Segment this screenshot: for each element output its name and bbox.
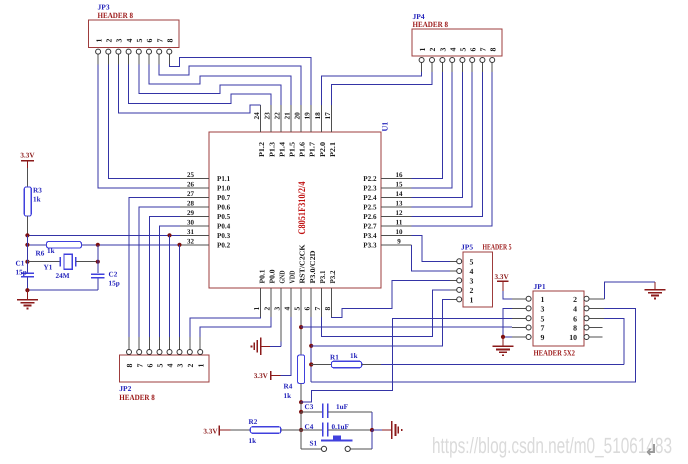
capacitor C3 (323, 404, 328, 418)
U1 right pin 14 (P2.4) (363, 190, 411, 202)
svg-text:10: 10 (396, 228, 404, 236)
svg-text:3: 3 (272, 307, 281, 311)
JP3 pin 8 (166, 39, 175, 65)
svg-text:P2.4: P2.4 (363, 193, 376, 202)
resistor R3 body (24, 187, 31, 216)
svg-text:4: 4 (125, 39, 134, 43)
svg-text:16: 16 (396, 171, 404, 179)
resistor R2 body (250, 427, 280, 433)
wire C4 node to ground (372, 429, 392, 431)
svg-text:7: 7 (479, 48, 488, 52)
IC U1 refdes label (381, 122, 390, 132)
svg-text:P1.2: P1.2 (257, 142, 266, 157)
JP1 pin 6 (573, 314, 604, 323)
svg-text:24M: 24M (56, 272, 70, 280)
svg-text:P3.3: P3.3 (363, 240, 376, 249)
watermark text (432, 433, 672, 458)
svg-text:8: 8 (125, 364, 134, 368)
svg-text:5: 5 (156, 364, 165, 368)
capacitor C1 (21, 273, 34, 290)
svg-text:P0.3: P0.3 (217, 231, 230, 240)
svg-text:P1.1: P1.1 (217, 174, 230, 183)
svg-text:P2.2: P2.2 (363, 174, 376, 183)
wire S1 right lead up to C4 node (350, 430, 372, 449)
wire JP1 pin 2 to ground (605, 282, 655, 299)
svg-text:R4: R4 (284, 383, 293, 391)
wire R2 to reset node (281, 429, 301, 431)
svg-text:18: 18 (313, 112, 322, 120)
JP2 pin 3 (176, 337, 185, 368)
svg-text:28: 28 (187, 200, 195, 208)
svg-text:P2.0: P2.0 (318, 142, 327, 157)
svg-text:R1: R1 (330, 354, 339, 362)
wire U1 P0.1 to JP2 pin 2 (190, 317, 261, 337)
JP3 pin 3 (115, 39, 124, 65)
svg-text:P1.0: P1.0 (217, 184, 230, 193)
wire JP3 pin 8 to U1 pin 19 (P1.7) (169, 57, 311, 105)
U1 left pin 28 (P0.6) (180, 200, 230, 212)
JP3 pin 7 (155, 39, 164, 65)
wire U1 P3.2 pin 8 to JP5 pin 3 (331, 280, 450, 317)
svg-text:5: 5 (135, 39, 144, 43)
JP4 pin 3 (439, 48, 448, 73)
R3 value label 1k (33, 196, 41, 204)
svg-text:2: 2 (105, 39, 114, 43)
svg-text:P0.4: P0.4 (217, 222, 230, 231)
svg-text:12: 12 (396, 209, 404, 217)
wire C3 right lead down to C4 node (328, 412, 372, 430)
svg-text:P0.2: P0.2 (217, 240, 230, 249)
wire reset node detour to JP1 pin 5 (301, 318, 512, 402)
ground right of C4 (392, 421, 403, 439)
svg-text:HEADER 5: HEADER 5 (483, 243, 512, 252)
svg-text:9: 9 (541, 333, 545, 342)
svg-text:17: 17 (323, 112, 332, 120)
U1 top pin 19 (P1.7) (303, 105, 317, 157)
svg-text:3: 3 (176, 364, 185, 368)
U1 bottom pin 2 (P0.0) (262, 269, 276, 317)
wire U1 GND pin 3 to ground (261, 317, 281, 346)
svg-text:P3.2: P3.2 (328, 270, 337, 283)
R3 refdes label (33, 187, 42, 195)
JP4 pin 6 (468, 48, 477, 73)
svg-text:21: 21 (283, 112, 292, 120)
svg-text:19: 19 (303, 112, 312, 120)
svg-text:P1.3: P1.3 (267, 142, 276, 157)
svg-text:HEADER 8: HEADER 8 (413, 20, 449, 29)
svg-text:23: 23 (262, 112, 271, 120)
svg-text:P1.7: P1.7 (308, 142, 317, 157)
junction ground node below JP5 (501, 335, 505, 339)
svg-text:1: 1 (418, 48, 427, 52)
U1 bottom pin 4 (VDD) (283, 271, 297, 318)
ground at top right (644, 282, 665, 299)
svg-text:31: 31 (187, 228, 195, 236)
wire U1 P0.7 to JP2 pin 8 (129, 198, 180, 338)
svg-text:P1.5: P1.5 (288, 142, 297, 157)
JP5 pin 3 (450, 276, 474, 285)
R1 refdes label (330, 354, 339, 362)
JP1 pin 9 (512, 333, 545, 342)
C2 value label 15p (109, 279, 120, 287)
svg-text:P2.3: P2.3 (363, 184, 376, 193)
wire U1 P0.0 to JP2 pin 1 (200, 317, 271, 337)
U1 left pin 29 (P0.5) (180, 209, 230, 221)
svg-text:15p: 15p (16, 268, 27, 276)
JP1 pin 10 (569, 333, 602, 342)
JP4 pin 2 (428, 48, 437, 73)
R4 refdes label (284, 383, 293, 391)
junction C2D to R1 (309, 362, 313, 366)
svg-text:R2: R2 (249, 418, 258, 426)
junction P0.2 to JP2 pin 3 (177, 243, 181, 337)
svg-text:5: 5 (293, 307, 302, 311)
JP2 refdes label (119, 384, 131, 393)
wire U1 P0.3 row to crystal node (27, 234, 180, 236)
wire JP4 pin 4 to U1 pin 15 (P2.3) (412, 72, 453, 188)
svg-text:1k: 1k (249, 437, 257, 445)
wire JP3 pin 3 to U1 pin 24 (P1.2) (118, 65, 260, 113)
C3 refdes label (305, 403, 314, 411)
JP1 pin 4 (573, 304, 604, 313)
IC U1 C8051F310/2/4 body (209, 132, 381, 288)
svg-text:P2.7: P2.7 (363, 222, 376, 231)
wire JP4 pin 5 to U1 pin 14 (P2.4) (412, 72, 463, 198)
wire RST to JP1 pin 7 (301, 326, 512, 328)
C1 refdes label (16, 260, 25, 268)
svg-text:4: 4 (166, 364, 175, 368)
junction RST to JP1 pin 7 (299, 325, 303, 329)
JP3 pin 4 (125, 39, 134, 65)
wire U1 P3.3 to JP5 pin 4 (412, 245, 450, 271)
svg-text:P0.1: P0.1 (257, 269, 266, 283)
R6 refdes label (36, 250, 45, 258)
wire U1 VDD pin 4 to 3.3V (281, 317, 292, 375)
capacitor C2 (91, 274, 105, 290)
svg-text:C1: C1 (16, 260, 25, 268)
svg-text:32: 32 (187, 237, 195, 245)
U1 bottom pin 7 (P3.1) (313, 270, 327, 317)
JP2 pin 7 (135, 337, 144, 368)
svg-text:2: 2 (428, 48, 437, 52)
svg-text:3: 3 (470, 276, 474, 285)
power 3.3V at VDD (254, 371, 281, 380)
svg-text:1: 1 (541, 295, 545, 304)
JP3 pin 5 (135, 39, 144, 65)
crystal Y1 (60, 254, 76, 269)
C4 refdes label (305, 423, 314, 431)
wire U1 P3.1 pin 7 to JP5 pin 2 (321, 290, 450, 336)
U1 top pin 22 (P1.4) (272, 105, 286, 157)
svg-text:1k: 1k (33, 196, 41, 204)
JP4 refdes label (413, 12, 425, 21)
svg-text:3.3V: 3.3V (203, 427, 218, 435)
C2 refdes label (109, 271, 118, 279)
svg-text:P2.6: P2.6 (363, 212, 376, 221)
connector JP3 body (88, 20, 179, 47)
C3 value label 1uF (336, 403, 349, 411)
svg-text:5: 5 (459, 48, 468, 52)
junction C2D to JP5 pin 1 (309, 344, 313, 348)
svg-text:P2.5: P2.5 (363, 203, 376, 212)
U1 top pin 17 (P2.1) (323, 105, 337, 157)
svg-text:6: 6 (146, 364, 155, 368)
U1 top pin 23 (P1.3) (262, 105, 276, 157)
svg-text:1: 1 (470, 295, 474, 304)
svg-text:R6: R6 (36, 250, 45, 258)
node crystal left rail (25, 233, 29, 272)
svg-text:VDD: VDD (288, 271, 297, 284)
R2 value label 1k (249, 437, 257, 445)
U1 top pin 24 (P1.2) (252, 105, 266, 157)
svg-text:P3.4: P3.4 (363, 231, 376, 240)
switch S1 (321, 436, 352, 452)
ground below JP5 (492, 337, 513, 356)
svg-text:P1.6: P1.6 (298, 142, 307, 157)
U1 right pin 11 (P2.7) (363, 218, 411, 230)
Y1 value label 24M (56, 272, 70, 280)
JP1 pin 5 (512, 314, 545, 323)
svg-text:1uF: 1uF (336, 403, 349, 411)
U1 right pin 13 (P2.5) (363, 200, 411, 212)
R1 value label 1k (350, 352, 358, 360)
ground below C1 (17, 290, 38, 309)
wire C4 left lead (301, 429, 322, 431)
svg-text:7: 7 (155, 39, 164, 43)
JP4 pin 4 (448, 48, 457, 73)
svg-text:1: 1 (252, 307, 261, 311)
JP1 refdes label (534, 282, 546, 291)
wire JP3 pin 7 to U1 pin 20 (P1.6) (159, 65, 301, 105)
wire C4 right lead (328, 429, 372, 431)
wire JP3 pin 1 to U1 P1.0 (98, 65, 180, 189)
svg-text:3.3V: 3.3V (495, 273, 510, 281)
svg-text:1: 1 (196, 364, 205, 368)
wire JP4 pin 2 to U1 pin 17 (P2.1) (331, 72, 432, 105)
svg-text:2: 2 (573, 295, 577, 304)
JP1 pin 8 (573, 324, 602, 333)
svg-text:22: 22 (272, 112, 281, 120)
Y1 refdes label (44, 264, 53, 272)
U1 bottom pin 8 (P3.2) (323, 270, 337, 317)
U1 left pin 32 (P0.2) (180, 237, 230, 249)
JP2 pin 6 (146, 337, 155, 368)
U1 top pin 21 (P1.5) (283, 105, 297, 157)
U1 left pin 27 (P0.7) (180, 190, 230, 202)
resistor R4 body (298, 355, 305, 384)
U1 bottom pin 1 (P0.1) (252, 269, 266, 317)
svg-text:14: 14 (396, 190, 404, 198)
svg-text:https://blog.csdn.net/m0_51061: https://blog.csdn.net/m0_51061483 (432, 433, 672, 458)
svg-text:3: 3 (439, 48, 448, 52)
U1 right pin 15 (P2.3) (363, 181, 411, 193)
JP1 value label HEADER 5X2 (534, 349, 576, 358)
wire 3.3V to R3 (26, 168, 28, 187)
wire 3.3V to JP1 pin 1 (503, 291, 512, 299)
R6 value label 1k (47, 247, 55, 255)
svg-text:R3: R3 (33, 187, 42, 195)
svg-text:HEADER 8: HEADER 8 (98, 11, 134, 20)
svg-text:C2: C2 (109, 271, 118, 279)
svg-text:4: 4 (283, 307, 292, 311)
JP5 pin 2 (450, 286, 474, 295)
svg-text:2: 2 (262, 307, 271, 311)
wire R6 to U1 P0.2 (81, 244, 180, 246)
JP5 pin 4 (450, 267, 474, 276)
connector JP1 body (533, 291, 584, 346)
svg-text:P3.1: P3.1 (318, 270, 327, 283)
U1 left pin 30 (P0.4) (180, 218, 230, 230)
JP4 value label HEADER 8 (413, 20, 449, 29)
svg-text:GND: GND (278, 271, 287, 284)
svg-text:2: 2 (186, 364, 195, 368)
JP4 pin 8 (488, 48, 497, 73)
svg-text:3.3V: 3.3V (254, 372, 269, 380)
svg-text:P3.0/C2D: P3.0/C2D (308, 251, 317, 284)
wire C1 bottom to C2 bottom (25, 288, 98, 292)
IC U1 part name C8051F310/2/4 (297, 182, 308, 235)
U1 right pin 12 (P2.6) (363, 209, 411, 221)
JP2 value label HEADER 8 (119, 393, 155, 402)
svg-text:1: 1 (94, 39, 103, 43)
svg-text:4: 4 (448, 48, 457, 52)
JP1 pin 2 (573, 295, 604, 304)
U1 right pin 16 (P2.2) (363, 171, 411, 183)
svg-text:S1: S1 (310, 440, 318, 448)
U1 top pin 18 (P2.0) (313, 105, 327, 157)
JP1 pin 3 (512, 304, 545, 313)
wire JP3 pin 2 to U1 P1.1 (108, 65, 180, 179)
JP3 value label HEADER 8 (98, 11, 134, 20)
svg-text:10: 10 (569, 333, 577, 342)
svg-text:HEADER 8: HEADER 8 (119, 393, 155, 402)
svg-text:1k: 1k (350, 352, 358, 360)
U1 left pin 31 (P0.3) (180, 228, 230, 240)
U1 left pin 25 (P1.1) (180, 171, 230, 183)
junction reset node at R4 bottom (299, 400, 303, 404)
resistor R6 body (47, 242, 82, 248)
wire JP3 pin 6 to U1 pin 21 (P1.5) (149, 65, 291, 105)
svg-text:8: 8 (323, 307, 332, 311)
svg-text:7: 7 (313, 307, 322, 311)
svg-text:Y1: Y1 (44, 264, 53, 272)
wire U1 P0.5 to JP2 pin 6 (149, 216, 180, 337)
wire JP4 pin 8 to U1 pin 11 (P2.7) (412, 72, 493, 226)
svg-text:15: 15 (396, 181, 404, 189)
node crystal right rail (96, 245, 100, 273)
wire R1 to JP1 pin 6 (362, 318, 624, 364)
svg-text:11: 11 (396, 218, 404, 226)
connector JP5 body (463, 252, 492, 307)
wire crystal row left (27, 261, 60, 263)
JP2 pin 5 (156, 337, 165, 368)
capacitor C4 (323, 422, 328, 436)
svg-text:3.3V: 3.3V (20, 152, 35, 160)
wire crystal row right (76, 261, 98, 263)
wire C3 left lead (301, 411, 322, 413)
power 3.3V at JP1 (495, 273, 510, 291)
wire 3.3V to R2 (231, 429, 251, 431)
svg-text:4: 4 (573, 304, 577, 313)
svg-text:6: 6 (573, 314, 577, 323)
svg-text:2: 2 (470, 286, 474, 295)
junction P0.3 to JP2 pin 4 (167, 233, 171, 337)
C4 value label 0.1uF (332, 423, 350, 431)
wire S1 left lead (301, 448, 321, 450)
junction C4 right / S1 / ground (370, 428, 374, 432)
svg-text:P0.0: P0.0 (267, 269, 276, 283)
svg-text:P0.5: P0.5 (217, 212, 230, 221)
svg-text:RST/C2CK: RST/C2CK (298, 244, 307, 283)
junction P0.2 / crystal right rail (96, 243, 100, 247)
power 3.3V above R3 (20, 152, 35, 168)
resistor R1 body (331, 361, 361, 367)
svg-text:P1.4: P1.4 (277, 142, 286, 157)
wire U1 RST/C2CK pin 5 down to R4 (300, 317, 302, 355)
wire U1 P0.2 row left segment (27, 244, 46, 246)
wire U1 P0.6 to JP2 pin 7 (139, 207, 180, 337)
svg-text:7: 7 (135, 364, 144, 368)
U1 bottom pin 6 (P3.0/C2D) (303, 251, 317, 318)
U1 top pin 20 (P1.6) (293, 105, 307, 157)
JP1 pin 1 (512, 295, 545, 304)
JP5 refdes label (461, 243, 473, 252)
R2 refdes label (249, 418, 258, 426)
wire U1 P0.4 to JP2 pin 5 (160, 226, 181, 337)
wire U1 P3.4 to JP5 pin 5 (412, 235, 450, 261)
connector JP2 body (119, 355, 209, 382)
S1 refdes label (310, 440, 318, 448)
svg-text:HEADER 5X2: HEADER 5X2 (534, 349, 576, 358)
U1 right pin 9 (P3.3) (363, 237, 411, 249)
U1 left pin 26 (P1.0) (180, 181, 230, 193)
svg-text:C4: C4 (305, 423, 314, 431)
wire U1 P3.0/C2D pin 6 down (310, 317, 312, 382)
wire JP3 pin 4 to U1 pin 23 (P1.3) (129, 65, 271, 105)
U1 bottom pin 5 (RST/C2CK) (293, 244, 307, 317)
wire JP1 pin 9 to ground node (503, 336, 512, 338)
svg-text:20: 20 (293, 112, 302, 120)
C1 value label 15p (16, 268, 27, 276)
JP3 pin 1 (94, 39, 103, 65)
JP3 pin 6 (145, 39, 154, 65)
svg-text:8: 8 (573, 324, 577, 333)
svg-text:1k: 1k (284, 392, 292, 400)
JP3 pin 2 (105, 39, 114, 65)
svg-text:6: 6 (303, 307, 312, 311)
svg-text:8: 8 (488, 48, 497, 52)
wire JP1 pin 3 to ground node (503, 308, 512, 337)
svg-text:1k: 1k (47, 247, 55, 255)
U1 right pin 10 (P3.4) (363, 228, 411, 240)
svg-text:3: 3 (541, 304, 545, 313)
JP5 value label HEADER 5 (483, 243, 512, 252)
JP4 pin 7 (479, 48, 488, 73)
JP2 pin 4 (166, 337, 175, 368)
wire reset node down (300, 402, 302, 412)
svg-text:U1: U1 (381, 122, 390, 132)
wire JP4 pin 7 to U1 pin 12 (P2.6) (412, 72, 483, 216)
svg-text:9: 9 (397, 237, 401, 245)
svg-text:P0.6: P0.6 (217, 203, 230, 212)
U1 bottom pin 3 (GND) (272, 271, 286, 318)
junction C3 left (299, 410, 303, 414)
JP5 pin 1 (450, 295, 474, 304)
ground at U1 pin 3 (251, 338, 261, 356)
wire JP4 pin 3 to U1 pin 16 (P2.2) (412, 72, 443, 179)
svg-text:27: 27 (187, 190, 195, 198)
wire reset node down to S1 row (300, 430, 302, 449)
